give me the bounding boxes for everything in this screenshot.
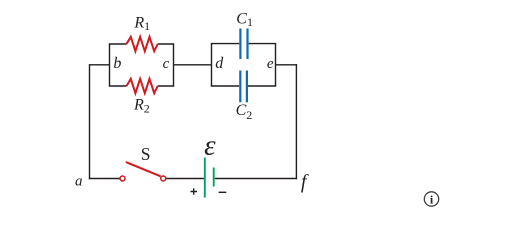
svg-text:i: i [430, 193, 434, 207]
svg-text:ε: ε [204, 130, 216, 162]
info icon [424, 192, 438, 207]
resistor R2 [127, 79, 158, 116]
node d [215, 55, 224, 72]
node b [113, 55, 121, 72]
wire: left stub from node b box to outer loop [90, 64, 110, 66]
svg-text:S: S [141, 144, 151, 164]
wire: middle connector between node c and node d [174, 64, 212, 66]
svg-text:c: c [163, 56, 170, 72]
battery polarity label - [219, 191, 227, 193]
svg-text:C1: C1 [236, 10, 253, 29]
node a [75, 173, 83, 189]
svg-text:a: a [75, 173, 83, 189]
wire: left vertical of outer loop [89, 64, 91, 179]
svg-text:e: e [267, 56, 274, 72]
battery polarity label + [191, 188, 198, 195]
svg-text:f: f [301, 171, 309, 193]
capacitor C2 [236, 71, 253, 122]
wire: bottom right segment from battery to node f corner [215, 178, 297, 180]
resistor R1 [127, 15, 158, 52]
wire: capacitor loop box edges (d-e rectangle) [211, 44, 276, 86]
wire: resistor loop box edges (b-c rectangle) [109, 44, 174, 86]
wire: bottom segment between switch and battery [166, 178, 204, 180]
node e [267, 56, 274, 72]
wire: bottom left segment from node a corner to switch [89, 178, 120, 180]
svg-text:R1: R1 [133, 15, 150, 34]
svg-text:d: d [215, 55, 224, 72]
switch S [120, 144, 166, 181]
battery EMF source [204, 130, 216, 198]
svg-text:C2: C2 [236, 102, 253, 122]
capacitor C1 [236, 10, 253, 59]
wire: right stub from capacitor box to outer loop [276, 64, 298, 66]
svg-text:b: b [113, 55, 121, 72]
node f [301, 171, 309, 193]
wire: right vertical of outer loop [295, 64, 297, 179]
svg-text:R2: R2 [133, 97, 150, 116]
node c [163, 56, 170, 72]
